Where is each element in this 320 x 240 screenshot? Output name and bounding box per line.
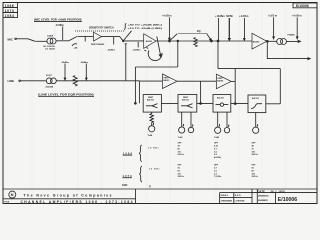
EQ send horizontal (135, 66, 177, 68)
freq list C 1066 (214, 143, 221, 160)
eq box C MF (213, 95, 231, 113)
svg-text:1084: 1084 (122, 184, 128, 187)
line branch riser (138, 81, 140, 104)
EQ send drop to HF box (134, 67, 136, 103)
svg-text:2 REDRAWN: 2 REDRAWN (221, 200, 233, 203)
svg-text:7.2 KHz: 7.2 KHz (214, 176, 221, 178)
level tick +4dBm out (296, 17, 298, 37)
rotary B1 (179, 127, 185, 133)
rotary B2 (188, 127, 193, 132)
bracket gain range (124, 23, 126, 29)
freq list B 1073 (178, 165, 184, 179)
wire EQ chain B-C (197, 102, 213, 104)
mid tap vertical (234, 69, 236, 104)
svg-text:L.HEYDER: L.HEYDER (235, 201, 245, 203)
svg-text:31267: 31267 (46, 75, 53, 77)
issue box (219, 193, 221, 204)
svg-text:The Neve Group of Companies: The Neve Group of Companies (24, 194, 112, 198)
svg-text:NOTE:: NOTE: (226, 15, 233, 18)
svg-text:BA184: BA184 (217, 79, 224, 82)
EQ send riser (177, 41, 179, 67)
svg-text:PHASE: PHASE (288, 34, 296, 37)
EQ return horizontal (218, 68, 280, 70)
EQ return riser (217, 41, 219, 69)
second output (267, 41, 309, 58)
svg-text:BA183: BA183 (163, 79, 169, 82)
svg-text:+10dBm: +10dBm (215, 15, 225, 18)
level tick +10dBm (218, 18, 220, 40)
wire amp2 out (156, 40, 252, 42)
drawing number box E/10006 top right (293, 3, 317, 8)
svg-text:1066: 1066 (5, 4, 14, 8)
level tick 0dBm (273, 17, 275, 37)
title text (4, 202, 10, 204)
wire transformer out (56, 40, 69, 42)
svg-text:MIC: MIC (8, 38, 14, 42)
wire to amp2 (123, 40, 144, 42)
eq box A HF shelf (143, 95, 161, 113)
svg-text:-30dBm: -30dBm (80, 62, 88, 64)
svg-text:1084: 1084 (5, 14, 14, 18)
rotary A (149, 126, 155, 132)
label -30dBm (113, 37, 115, 45)
svg-text:12 KHz: 12 KHz (149, 169, 160, 171)
svg-text:N: N (11, 192, 14, 197)
wire amp1 out (102, 35, 120, 37)
line riser to sensitivity (125, 44, 127, 81)
mic input node (8, 38, 14, 42)
link to wiper (124, 31, 132, 40)
neve logo (9, 191, 16, 198)
svg-text:BA 183: BA 183 (252, 97, 260, 100)
top level labels (162, 15, 302, 19)
svg-text:28. 1. 1970: 28. 1. 1970 (271, 189, 285, 193)
svg-text:+4dBm: +4dBm (239, 15, 248, 18)
svg-text:1073: 1073 (5, 9, 14, 13)
svg-text:PART: PART (218, 77, 224, 80)
svg-text:PART: PART (148, 96, 154, 99)
pot C stems (217, 112, 219, 127)
switch +48 (69, 37, 77, 41)
level tick +4dBm (168, 17, 170, 39)
pot A stem resistor (150, 112, 154, 125)
node B out (200, 103, 202, 105)
svg-text:EQ: EQ (197, 30, 201, 33)
svg-text:505/348: 505/348 (46, 86, 54, 89)
label -20dBm (137, 42, 139, 48)
mic transformer 10468 (47, 38, 53, 44)
svg-text:BA283: BA283 (253, 40, 260, 43)
node A in (135, 102, 137, 104)
svg-text:360 Hz: 360 Hz (252, 154, 258, 156)
svg-text:220 Hz: 220 Hz (178, 176, 184, 178)
op-amp A1 PART BA283 (94, 32, 102, 41)
svg-text:(MIC LEVEL FOR +50dB POSITION): (MIC LEVEL FOR +50dB POSITION) (34, 18, 82, 22)
svg-text:CHANNEL AMPLIFIERS 1066 , 10: CHANNEL AMPLIFIERS 1066 , 1073,1084 (21, 200, 133, 204)
svg-text:0dBm: 0dBm (269, 15, 278, 18)
output transformer (277, 39, 283, 45)
EQ bypass switch blade (170, 34, 178, 41)
EQ return drop (279, 69, 281, 104)
svg-text:220 Hz: 220 Hz (178, 154, 184, 156)
svg-text:10 KHz: 10 KHz (148, 147, 159, 149)
wire amp3 in (139, 80, 162, 82)
svg-text:300 Hz: 300 Hz (252, 176, 258, 178)
svg-text:((: (( (149, 185, 151, 188)
title block top line (3, 188, 317, 190)
resistor R series (194, 38, 197, 47)
sensitivity rotary switch (148, 51, 162, 61)
rotary C2 (224, 128, 229, 133)
pot B stems (181, 112, 183, 127)
svg-text:LO 10A31: LO 10A31 (45, 48, 56, 51)
riser amp3 out to B (200, 81, 202, 103)
svg-text:BA 183: BA 183 (182, 99, 190, 102)
svg-text:TITLE: TITLE (4, 202, 10, 204)
svg-text:NUMBER: NUMBER (258, 200, 268, 202)
model 1073 HF freq (122, 174, 132, 178)
label -17dBm (55, 24, 64, 27)
date drawing box (251, 189, 253, 204)
pot D stem (255, 113, 257, 128)
svg-text:ISSUE 4: ISSUE 4 (221, 194, 229, 197)
eq box B LF shelf (178, 95, 197, 113)
svg-text:+4dBm: +4dBm (292, 15, 302, 18)
svg-text:T=4B: T=4B (214, 136, 220, 139)
model 1066 HF freq (123, 151, 133, 155)
node EQ send (169, 40, 171, 42)
svg-text:+80 TO +20dB (MIC): +80 TO +20dB (MIC) (128, 24, 163, 26)
rotary D (253, 127, 259, 133)
wire line xfmr out (56, 80, 139, 82)
wire EQ chain C-D (231, 103, 248, 105)
svg-text:DRAWING: DRAWING (258, 195, 269, 198)
svg-text:PART: PART (164, 77, 170, 80)
op-amp A4 BA283 (252, 33, 267, 49)
wire to output transformer (267, 40, 277, 42)
svg-text:-20dBm: -20dBm (133, 49, 141, 51)
svg-text:E/10006: E/10006 (278, 197, 297, 203)
node output (266, 40, 268, 42)
freq list D 1066 (252, 143, 258, 157)
wire to amp1 (78, 35, 94, 37)
svg-text:+4dBm: +4dBm (162, 15, 172, 18)
node EQ return (217, 40, 219, 42)
svg-text:N.E.79: N.E.79 (235, 195, 241, 197)
svg-text:PART: PART (183, 96, 189, 99)
level tick +4dBm b (244, 18, 246, 40)
op-amp A3b (216, 74, 231, 89)
svg-text:PART BA283: PART BA283 (91, 43, 105, 46)
sensitivity dashed link (75, 30, 125, 32)
level tick NOTE1 (228, 18, 230, 39)
op-amp A2 (144, 34, 156, 49)
company name (24, 194, 112, 198)
note: mic level caption (34, 18, 82, 22)
label -30dBm line (80, 62, 88, 64)
op-amp A3 (163, 74, 178, 89)
line level caption (38, 93, 94, 97)
EQ bypass dashed (179, 32, 207, 34)
freq list D 1073 (252, 165, 258, 179)
svg-text:10468: 10468 (47, 34, 54, 37)
node C out (234, 103, 236, 105)
output arrow (287, 41, 298, 43)
label -20dBm line (61, 62, 69, 64)
svg-text:DATE: DATE (258, 189, 266, 193)
wire amp3 out (177, 80, 216, 82)
svg-text:BA283: BA283 (146, 40, 153, 43)
wire EQ chain A-B (161, 102, 178, 104)
pencil marks (122, 184, 151, 188)
model table 1066/1073/1084 (3, 3, 18, 18)
wire line in (20, 80, 46, 82)
switch sensitivity wiper (120, 36, 124, 40)
resistor shunt (73, 76, 77, 86)
switch mic (28, 39, 35, 42)
title divider (3, 198, 136, 200)
svg-text:SENSITIVITY SWITCH: SENSITIVITY SWITCH (89, 27, 114, 30)
svg-text:+10 TO -20dB (LINE): +10 TO -20dB (LINE) (128, 28, 163, 30)
freq list B 1066 (178, 143, 184, 157)
wire mic in (16, 38, 28, 40)
LINE input (8, 79, 15, 83)
wire to mic transformer (35, 40, 47, 42)
eq box D HPF (248, 95, 266, 113)
svg-text:LINE: LINE (8, 79, 15, 83)
svg-text:4.8 KHz: 4.8 KHz (214, 156, 221, 159)
svg-text:BA 182: BA 182 (217, 97, 225, 100)
wire amp3b out (231, 80, 235, 82)
rotary C1 (215, 127, 221, 133)
freq list C 1073 (214, 165, 221, 179)
svg-text:-30dBm: -30dBm (107, 49, 115, 51)
svg-text:(LINE LEVEL FOR EQR POSITION): (LINE LEVEL FOR EQR POSITION) (38, 93, 94, 97)
wire EQ chain D out (266, 103, 281, 105)
line transformer 31267 (46, 78, 52, 84)
svg-text:E/10006: E/10006 (296, 4, 309, 8)
svg-text:BA 183: BA 183 (147, 99, 155, 102)
